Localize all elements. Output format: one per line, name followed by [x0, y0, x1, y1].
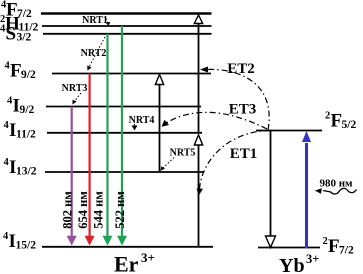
ET2 transfer curve — [200, 67, 269, 131]
svg-text:F: F — [328, 236, 340, 257]
svg-text:654 нм: 654 нм — [76, 191, 90, 229]
NRT5 pointer arrow — [161, 158, 175, 171]
ET3 upconversion arrow (4I13/2 to 4F9/2) — [155, 75, 163, 173]
svg-text:NRT2: NRT2 — [81, 48, 107, 59]
svg-text:9/2: 9/2 — [20, 104, 35, 116]
level 4S3/2 line — [43, 33, 212, 35]
ET2 upconversion arrow (4I11/2 to 4F7/2) — [194, 15, 202, 133]
svg-text:F: F — [10, 61, 22, 82]
level 2H11/2 line — [42, 25, 212, 27]
svg-text:15/2: 15/2 — [16, 240, 37, 252]
svg-text:802 нм: 802 нм — [60, 191, 74, 229]
emission arrow 544nm (green) — [103, 34, 113, 246]
svg-text:7/2: 7/2 — [339, 245, 354, 257]
level 4I13/2 line — [45, 171, 204, 173]
level 4I9/2 line — [46, 106, 201, 108]
svg-text:NRT4: NRT4 — [129, 115, 155, 126]
emission arrow 522nm (green) — [117, 26, 127, 246]
Yb level 2F5/2 line — [256, 130, 322, 132]
Yb level 2F7/2 line — [258, 247, 320, 249]
Yb relaxation arrow (2F5/2 down to 2F7/2, open head) — [266, 131, 276, 248]
emission arrow 654nm (red) — [85, 74, 95, 246]
level 4I15/2 line — [42, 246, 213, 248]
svg-text:NRT3: NRT3 — [62, 83, 88, 94]
level 4I11/2 line — [47, 132, 202, 134]
svg-text:Er: Er — [114, 252, 139, 274]
svg-text:9/2: 9/2 — [21, 69, 36, 81]
NRT2 pointer arrow — [87, 37, 105, 71]
ET1 transfer curve — [197, 131, 271, 196]
svg-text:ET3: ET3 — [229, 102, 257, 118]
Yb pump arrow 980nm (blue) — [302, 131, 311, 248]
svg-text:13/2: 13/2 — [16, 166, 37, 178]
emission arrow 802nm (purple) — [67, 107, 77, 246]
svg-text:3+: 3+ — [306, 252, 319, 266]
ET3 transfer curve — [162, 112, 268, 129]
level 4F9/2 line — [52, 73, 211, 75]
NRT4 pointer arrow — [132, 124, 138, 131]
svg-text:980 нм: 980 нм — [319, 178, 353, 190]
svg-text:3+: 3+ — [141, 250, 155, 265]
level 4F7/2 line — [41, 12, 212, 14]
svg-text:ET1: ET1 — [230, 146, 258, 162]
svg-text:522 нм: 522 нм — [113, 191, 127, 229]
svg-text:NRT5: NRT5 — [170, 148, 196, 159]
svg-text:S: S — [6, 24, 17, 45]
svg-text:ET2: ET2 — [227, 61, 255, 77]
svg-text:NRT1: NRT1 — [82, 15, 108, 26]
ET1 upconversion arrow (4I15/2 to 4I11/2) — [194, 135, 202, 247]
svg-text:5/2: 5/2 — [342, 119, 357, 131]
svg-text:2: 2 — [323, 236, 328, 247]
svg-text:Yb: Yb — [279, 255, 305, 274]
svg-text:3/2: 3/2 — [17, 32, 32, 44]
svg-text:2: 2 — [325, 111, 330, 122]
980 nm wavy pointer — [315, 188, 357, 194]
svg-text:11/2: 11/2 — [16, 129, 36, 141]
NRT1 pointer arrow — [106, 19, 111, 26]
svg-text:544 нм: 544 нм — [92, 191, 106, 229]
NRT3 pointer arrow — [73, 93, 82, 105]
svg-text:F: F — [331, 111, 343, 132]
